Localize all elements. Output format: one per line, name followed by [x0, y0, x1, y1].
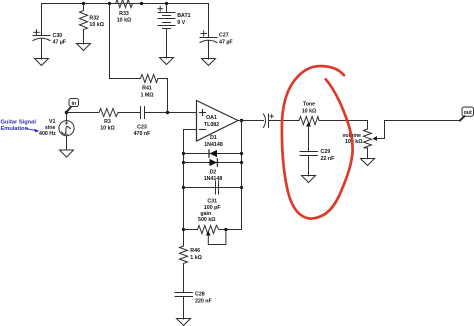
svg-text:C28: C28	[195, 291, 205, 297]
svg-text:220 nF: 220 nF	[195, 298, 213, 304]
wire V1 to ground	[66, 136, 68, 150]
svg-text:10 kΩ: 10 kΩ	[100, 125, 115, 131]
svg-text:D1: D1	[210, 135, 217, 141]
resistor R32	[80, 4, 88, 45]
svg-text:C31: C31	[207, 199, 217, 205]
svg-text:C27: C27	[219, 32, 229, 38]
connector in box	[67, 99, 79, 112]
ground (volume)	[361, 159, 375, 166]
capacitor C31	[216, 181, 219, 194]
wire in to V1	[66, 113, 68, 121]
svg-text:sine: sine	[45, 125, 56, 131]
svg-text:C30: C30	[53, 33, 63, 39]
node dot R41 riser	[108, 2, 111, 5]
wire right rail	[241, 121, 243, 230]
svg-text:BAT1: BAT1	[177, 13, 190, 19]
wire tone pot to volume	[319, 121, 368, 130]
capacitor C23	[141, 107, 145, 119]
wire D1	[184, 153, 242, 155]
node dot gain wiper	[224, 228, 227, 231]
node dot battery top	[165, 2, 168, 5]
ground (BAT1)	[160, 58, 174, 65]
svg-text:C29: C29	[321, 149, 331, 155]
diode D2	[210, 159, 218, 166]
ground (C30)	[35, 59, 49, 66]
capacitor C27	[200, 31, 217, 43]
svg-text:1 kΩ: 1 kΩ	[190, 255, 202, 261]
node dots left rail	[182, 152, 185, 155]
ground (V1)	[60, 150, 74, 157]
svg-text:R3: R3	[104, 119, 111, 125]
svg-text:9 V: 9 V	[177, 20, 185, 26]
svg-text:47 µF: 47 µF	[53, 40, 67, 46]
wire C31	[184, 187, 242, 189]
svg-text:C23: C23	[137, 125, 147, 131]
wire volume wiper to out	[385, 120, 461, 122]
svg-text:100 kΩ: 100 kΩ	[345, 139, 363, 145]
node dot R41 junction	[166, 111, 169, 114]
svg-text:R32: R32	[89, 15, 99, 21]
ground (R32)	[77, 44, 91, 51]
capacitor C30	[33, 30, 50, 41]
svg-text:10 kΩ: 10 kΩ	[302, 108, 317, 114]
wire C3 to tone pot	[269, 120, 300, 122]
op-amp OA1	[197, 101, 239, 142]
svg-text:out: out	[464, 110, 472, 116]
capacitor C3	[264, 114, 274, 128]
annotation Guitar Signal Emulation (blue)	[1, 120, 40, 133]
connector out box	[460, 107, 474, 121]
svg-text:1 MΩ: 1 MΩ	[140, 92, 154, 98]
svg-text:V1: V1	[49, 119, 56, 125]
annotation red circle (hand-drawn)	[282, 66, 353, 219]
potentiometer volume 100k	[364, 121, 385, 159]
ground (C27)	[202, 59, 216, 66]
node dot R33 right	[140, 2, 143, 5]
node dot R32 top	[82, 2, 85, 5]
wire signal in to R3	[67, 112, 100, 114]
ground (C29)	[302, 176, 316, 183]
wire C23 to op-amp	[145, 112, 197, 114]
svg-text:Emulation: Emulation	[1, 126, 29, 132]
wire R3 to C23	[118, 112, 141, 114]
resistor R3	[99, 109, 118, 117]
svg-text:500 kΩ: 500 kΩ	[198, 217, 216, 223]
svg-text:47 µF: 47 µF	[219, 39, 233, 45]
wire op-amp output to C3	[238, 120, 264, 122]
potentiometer Tone 10k	[299, 117, 319, 152]
svg-text:Tone: Tone	[303, 102, 315, 108]
svg-text:1N4148: 1N4148	[204, 142, 223, 148]
svg-text:R46: R46	[190, 248, 200, 254]
wire op-amp minus to left rail	[184, 130, 197, 247]
svg-text:1N4148: 1N4148	[204, 176, 223, 182]
capacitor C28	[175, 293, 193, 320]
node dot op-amp output	[240, 119, 243, 122]
wire C27 branch	[208, 4, 210, 38]
svg-text:TL082: TL082	[204, 122, 219, 128]
svg-text:22 nF: 22 nF	[321, 156, 336, 162]
resistor R46	[180, 246, 188, 292]
wire riser to R41	[109, 4, 111, 79]
svg-text:R41: R41	[142, 86, 152, 92]
svg-text:R33: R33	[119, 11, 129, 17]
resistor R33	[116, 0, 133, 8]
svg-text:Guitar Signal: Guitar Signal	[1, 120, 37, 126]
svg-text:10 kΩ: 10 kΩ	[89, 22, 104, 28]
svg-text:in: in	[71, 101, 76, 107]
battery BAT1	[158, 4, 175, 59]
node dot in	[65, 111, 68, 114]
svg-text:OA1: OA1	[206, 115, 217, 121]
wire D2	[184, 162, 242, 164]
wire gain pot line	[184, 229, 198, 231]
source V1	[59, 121, 74, 136]
svg-text:400 Hz: 400 Hz	[39, 131, 56, 137]
wire top rail	[42, 3, 209, 5]
wire C30 branch	[41, 4, 43, 36]
svg-text:470 nF: 470 nF	[134, 131, 152, 137]
svg-text:10 kΩ: 10 kΩ	[117, 17, 132, 23]
ground (C28)	[177, 319, 191, 326]
capacitor C29	[300, 152, 318, 177]
potentiometer gain 500k	[198, 226, 226, 245]
diode D1	[209, 150, 217, 157]
svg-text:gain: gain	[200, 211, 211, 217]
svg-text:D2: D2	[210, 170, 217, 176]
resistor R41	[110, 75, 168, 113]
node dots right rail	[240, 152, 243, 155]
